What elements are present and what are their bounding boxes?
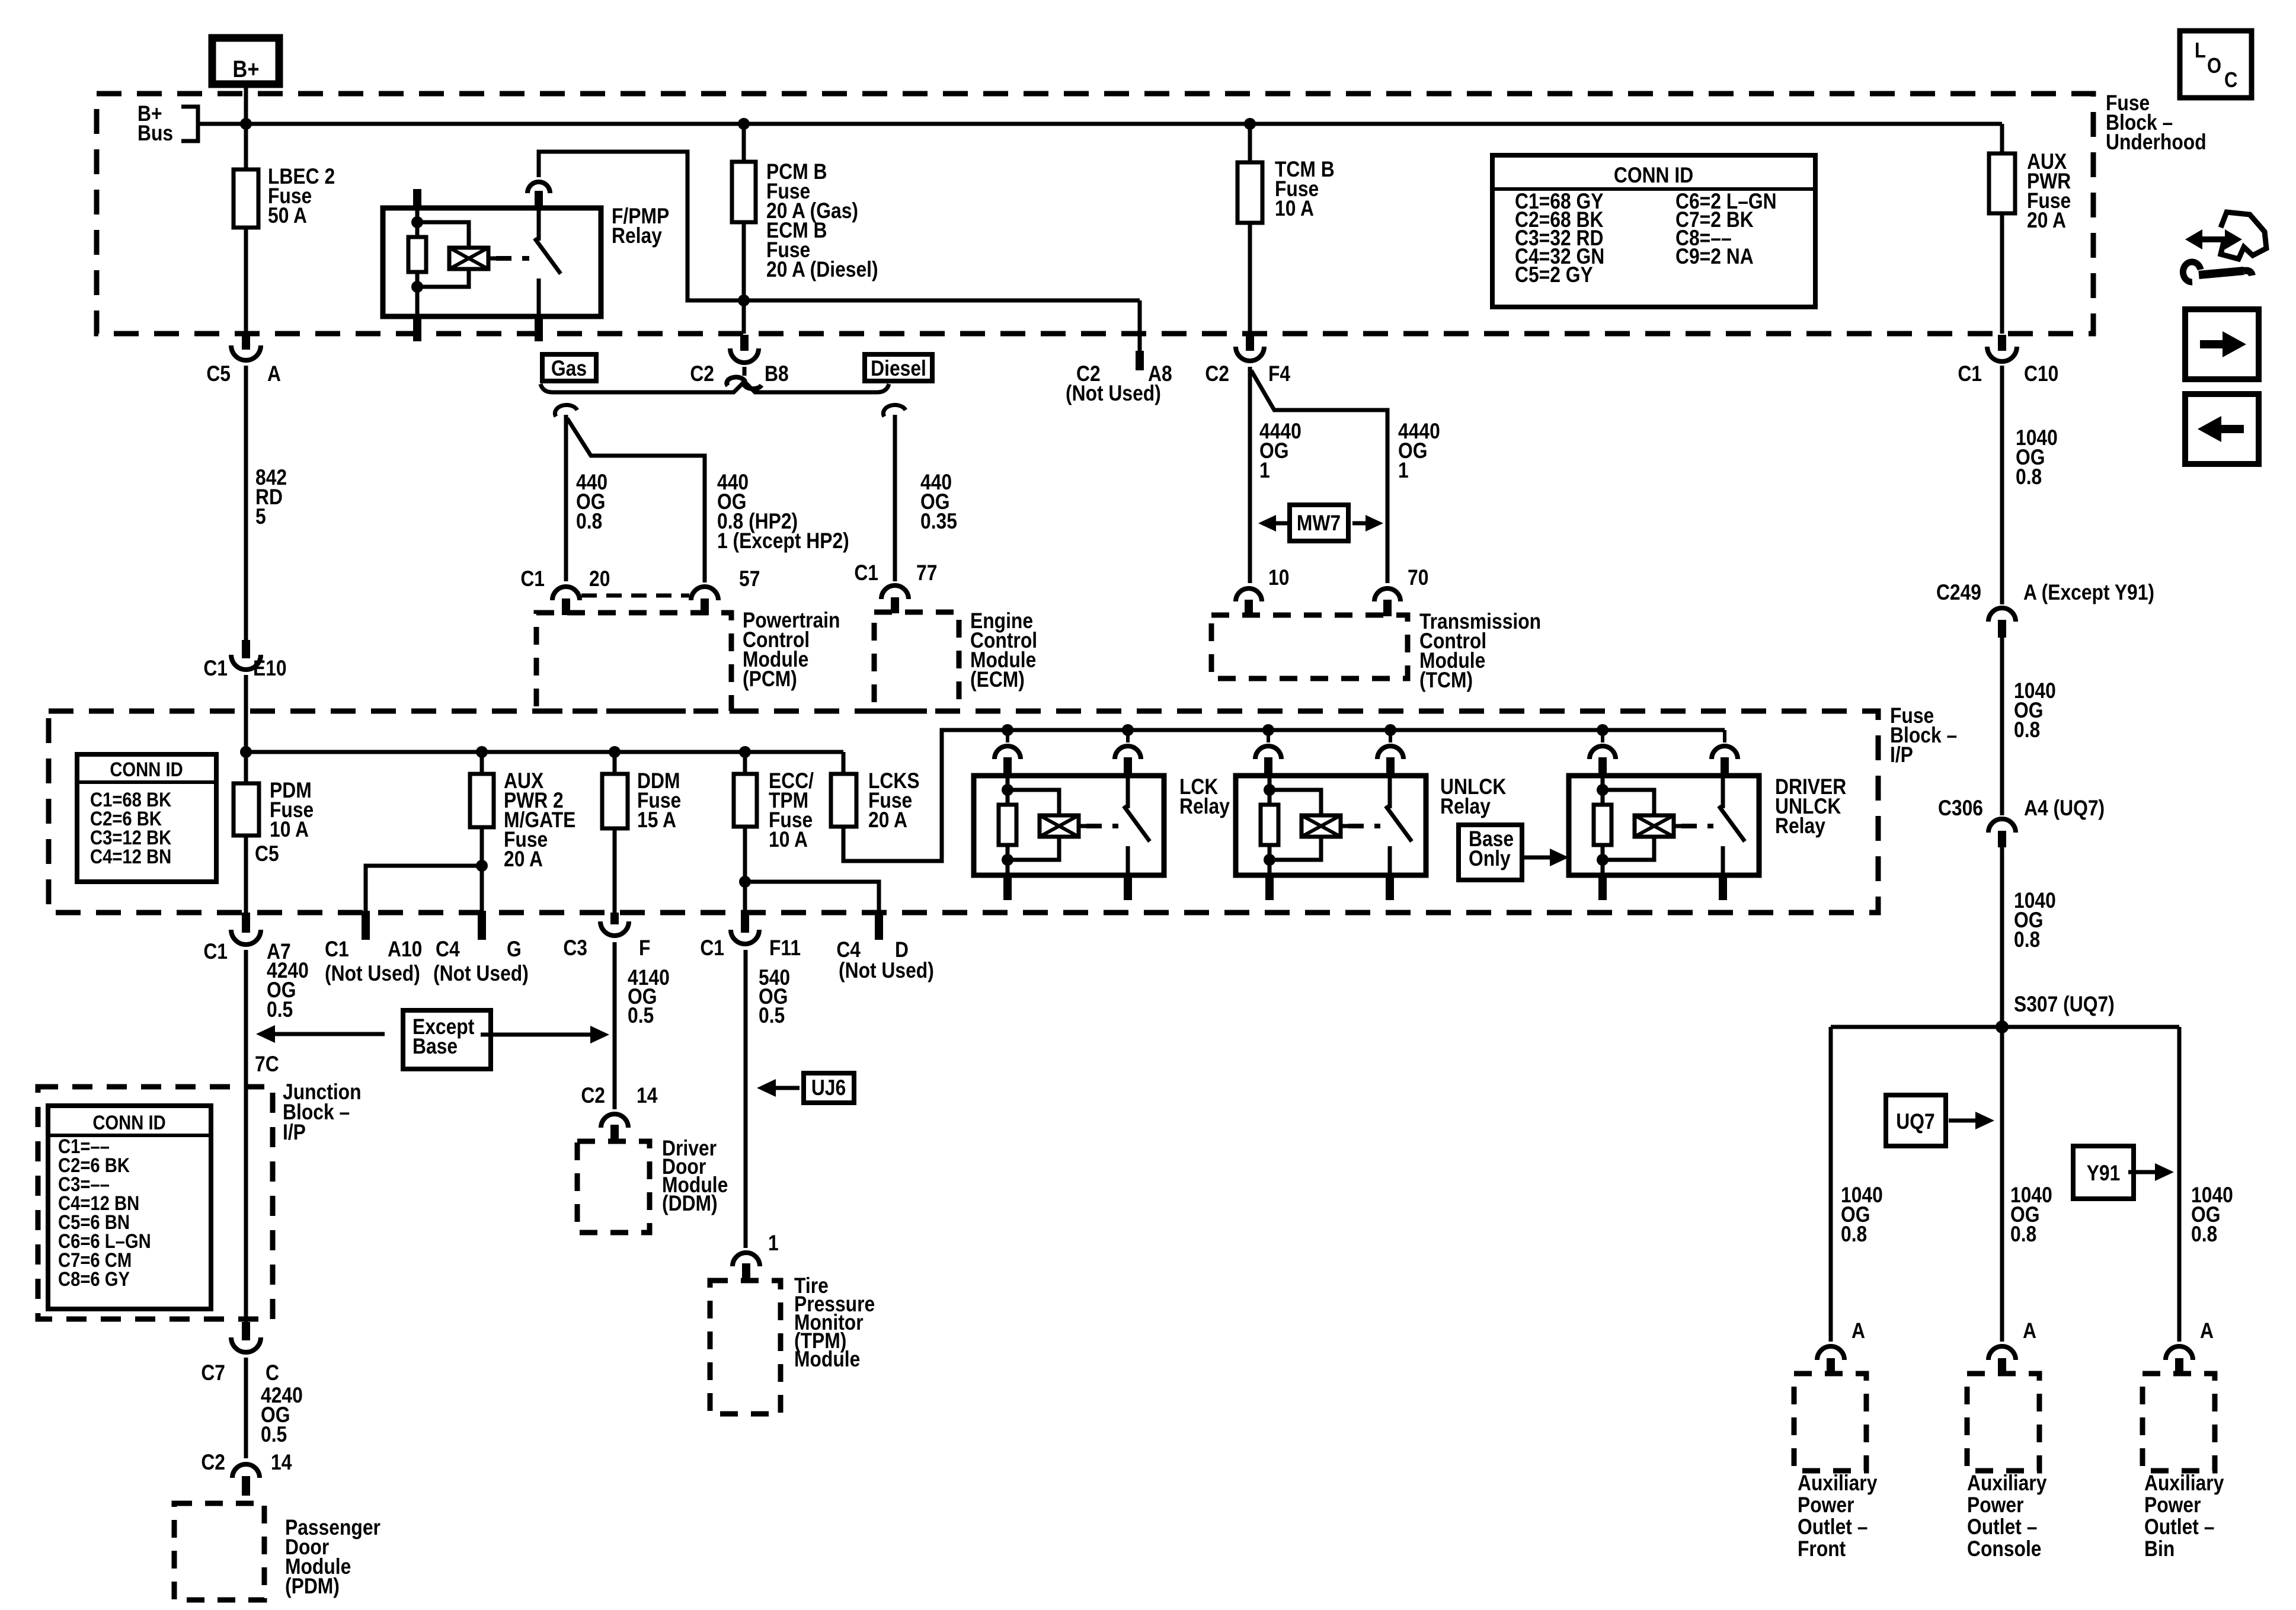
svg-text:C: C xyxy=(2224,69,2237,92)
label LCK relay xyxy=(1179,775,1230,819)
wire 842 RD 5 xyxy=(246,366,287,640)
module ECM box xyxy=(874,612,959,711)
svg-text:A10: A10 xyxy=(388,937,422,962)
fuse ECC/TPM 10A xyxy=(734,752,814,852)
svg-text:O: O xyxy=(2207,55,2221,78)
junction dot relaybus UNLCK switch xyxy=(1384,724,1396,736)
svg-text:Outlet –: Outlet – xyxy=(2144,1515,2214,1539)
svg-text:20 A: 20 A xyxy=(868,808,907,833)
svg-text:C10: C10 xyxy=(2024,362,2058,386)
label wire 540 OG 0.5 xyxy=(746,950,790,1248)
connector relay pin DUNLCK coil xyxy=(1590,730,1616,776)
label wire 4240 OG 0.5 pdm xyxy=(246,1358,303,1458)
svg-text:10 A: 10 A xyxy=(769,828,808,852)
connector outlet console pin A xyxy=(1988,1319,2036,1374)
node S307 xyxy=(1996,993,2115,1033)
svg-text:20 A: 20 A xyxy=(504,847,543,872)
icon arrow-left box xyxy=(2185,394,2259,464)
label DRIVER UNLCK relay xyxy=(1775,775,1846,838)
label wire 1040 OG 0.8 bin xyxy=(2191,1183,2233,1247)
svg-text:C4=12 BN: C4=12 BN xyxy=(90,845,171,868)
wire B+ bus xyxy=(198,122,2002,126)
wire outlet console xyxy=(2000,1027,2004,1342)
svg-text:Bin: Bin xyxy=(2144,1537,2175,1561)
connector relay pin LCK switch xyxy=(1115,730,1141,776)
connector hook diesel branch xyxy=(883,405,906,417)
svg-text:1: 1 xyxy=(1259,459,1270,483)
connector outlet bin pin A xyxy=(2166,1319,2214,1374)
connector PCM pin57 xyxy=(691,567,760,615)
wire A10 branch xyxy=(366,866,482,911)
svg-text:(ECM): (ECM) xyxy=(970,668,1025,692)
svg-text:(DDM): (DDM) xyxy=(662,1192,718,1216)
junction dot PCM/relay feed xyxy=(738,295,750,306)
connector C2/14 pdm xyxy=(201,1451,292,1496)
svg-text:A: A xyxy=(1851,1319,1865,1343)
svg-text:E10: E10 xyxy=(253,657,287,681)
svg-text:0.8: 0.8 xyxy=(2016,465,2042,489)
module PCM box xyxy=(536,613,731,711)
relay F/PMP xyxy=(383,208,601,341)
relay UNLCK xyxy=(1236,776,1426,900)
svg-text:C1: C1 xyxy=(203,657,228,681)
label wire 4240 OG 0.5 xyxy=(267,959,309,1022)
brace gas/diesel split xyxy=(541,382,889,392)
wire gas branch pin57 xyxy=(567,418,705,582)
wire B+ feed xyxy=(244,84,248,169)
wire DDM out xyxy=(613,828,617,913)
option box UJ6 xyxy=(757,1073,854,1103)
connector TCM pin10 xyxy=(1236,566,1289,616)
fuse LCKS 20A xyxy=(831,752,920,833)
svg-text:C5: C5 xyxy=(255,842,279,866)
label wire 440 OG 0.8 xyxy=(576,470,607,534)
connector C7/C xyxy=(201,1322,279,1385)
svg-text:Relay: Relay xyxy=(1179,795,1230,819)
connector C1/F11 xyxy=(700,913,801,961)
svg-text:UJ6: UJ6 xyxy=(811,1076,846,1100)
svg-text:C7: C7 xyxy=(201,1361,225,1385)
option box Except Base xyxy=(256,1010,609,1069)
svg-text:1: 1 xyxy=(1398,459,1409,483)
svg-text:C4: C4 xyxy=(436,937,460,962)
junction dot relaybus UNLCK coil xyxy=(1262,724,1274,736)
svg-text:0.8: 0.8 xyxy=(576,510,602,534)
svg-text:Relay: Relay xyxy=(612,224,662,248)
module TPM box xyxy=(710,1281,781,1414)
module PDM box xyxy=(174,1503,264,1600)
svg-text:F11: F11 xyxy=(769,936,801,961)
wire F/PMP relay feed xyxy=(539,152,1140,370)
svg-text:C1: C1 xyxy=(325,937,349,962)
svg-text:C5=2 GY: C5=2 GY xyxy=(1515,263,1593,287)
junction block IP dashed box xyxy=(38,1087,273,1319)
option box Y91 xyxy=(2073,1146,2174,1199)
svg-text:50 A: 50 A xyxy=(268,204,307,228)
svg-text:C2: C2 xyxy=(690,362,714,386)
svg-text:A: A xyxy=(2023,1319,2036,1343)
connector C1/C10 xyxy=(1958,335,2058,386)
connector PCM pin20 xyxy=(520,567,610,615)
svg-text:C1: C1 xyxy=(203,940,228,964)
svg-text:Front: Front xyxy=(1798,1537,1846,1561)
svg-text:Auxiliary: Auxiliary xyxy=(2144,1471,2224,1496)
label wire 440 OG 0.35 xyxy=(920,470,957,534)
svg-text:70: 70 xyxy=(1408,566,1428,590)
svg-text:10 A: 10 A xyxy=(270,818,309,842)
svg-text:Power: Power xyxy=(1967,1493,2023,1518)
label fuse block IP xyxy=(1890,704,1957,767)
connector ECM pin77 xyxy=(854,561,937,613)
module aux power outlet bin box xyxy=(2142,1374,2215,1471)
svg-text:C3: C3 xyxy=(563,936,587,961)
svg-text:C1: C1 xyxy=(700,936,724,961)
svg-text:Diesel: Diesel xyxy=(871,357,926,381)
module aux power outlet console box xyxy=(1967,1374,2039,1471)
stub F/PMP coil top xyxy=(413,189,421,208)
svg-text:F4: F4 xyxy=(1268,362,1290,386)
connector relay pin UNLCK switch xyxy=(1377,730,1403,776)
svg-text:7C: 7C xyxy=(255,1052,279,1077)
svg-text:14: 14 xyxy=(271,1451,292,1475)
junction dot bus/DDM xyxy=(609,746,621,758)
svg-text:20 A (Diesel): 20 A (Diesel) xyxy=(766,258,878,282)
module DDM box xyxy=(577,1141,650,1233)
svg-text:0.8: 0.8 xyxy=(2010,1222,2036,1247)
svg-text:Gas: Gas xyxy=(551,357,587,381)
fuse PCM B / ECM B xyxy=(732,124,878,334)
label DDM xyxy=(662,1137,728,1216)
icon arrow-right box xyxy=(2185,309,2259,379)
wire AUXPWR2 out xyxy=(480,827,484,911)
node B+ Bus bracket xyxy=(137,102,198,146)
svg-text:Relay: Relay xyxy=(1440,795,1491,819)
svg-text:MW7: MW7 xyxy=(1297,511,1341,536)
svg-text:C8=6 GY: C8=6 GY xyxy=(58,1267,130,1291)
svg-text:5: 5 xyxy=(255,505,266,529)
svg-text:B8: B8 xyxy=(765,362,789,386)
wire PDM out xyxy=(244,836,248,913)
svg-text:C1: C1 xyxy=(854,561,878,585)
connector C5/A xyxy=(206,335,281,386)
label wire 1040 OG 0.8 c xyxy=(2014,889,2056,952)
svg-text:(TCM): (TCM) xyxy=(1419,668,1473,693)
wire D branch xyxy=(745,882,879,911)
svg-text:Base: Base xyxy=(412,1035,458,1059)
svg-text:A4 (UQ7): A4 (UQ7) xyxy=(2024,796,2105,821)
connector relay pin DUNLCK switch xyxy=(1712,730,1738,776)
wire ECC out xyxy=(743,827,747,913)
svg-text:C306: C306 xyxy=(1938,796,1983,821)
tag box Base Only xyxy=(1459,825,1569,880)
svg-text:C1: C1 xyxy=(520,567,545,591)
connector outlet front pin A xyxy=(1817,1319,1865,1374)
svg-text:CONN ID: CONN ID xyxy=(92,1111,165,1134)
svg-text:(Not Used): (Not Used) xyxy=(433,962,529,986)
svg-text:Module: Module xyxy=(794,1347,860,1372)
label junction block IP xyxy=(283,1080,362,1145)
svg-text:0.5: 0.5 xyxy=(267,998,293,1022)
wire C249 to C306 xyxy=(2000,638,2004,815)
svg-text:C5: C5 xyxy=(206,362,231,386)
connector C1/A7 xyxy=(203,913,290,964)
fuse TCM B 10A xyxy=(1237,124,1335,334)
icon service wrench xyxy=(2183,212,2266,282)
connector C2/F4 xyxy=(1205,335,1290,386)
fuse AUX PWR 20A xyxy=(1989,124,2071,334)
label outlet bin xyxy=(2144,1471,2224,1561)
fuse LBEC 2 50A xyxy=(234,165,335,228)
label F/PMP relay xyxy=(612,204,669,248)
wire IP fuse bus xyxy=(246,750,843,754)
svg-text:F: F xyxy=(639,936,650,961)
junction dot AUXPWR2 branch xyxy=(476,860,488,872)
option box UQ7 xyxy=(1886,1095,1994,1146)
svg-text:C2: C2 xyxy=(1205,362,1229,386)
svg-text:(PCM): (PCM) xyxy=(743,667,797,692)
svg-text:Relay: Relay xyxy=(1775,814,1825,838)
wire C10 down xyxy=(2000,366,2004,604)
label outlet front xyxy=(1798,1471,1877,1561)
label wire 1040 OG 0.8 a xyxy=(2016,426,2058,489)
wire S307 bus xyxy=(1831,1025,2179,1029)
connector C2/B8 xyxy=(690,335,788,389)
conn id table IP xyxy=(77,754,216,882)
svg-text:A (Except Y91): A (Except Y91) xyxy=(2023,581,2154,605)
label TCM xyxy=(1419,610,1541,693)
junction dot relaybus LCK coil xyxy=(1002,724,1013,736)
svg-text:0.5: 0.5 xyxy=(628,1004,654,1028)
svg-text:10 A: 10 A xyxy=(1275,197,1314,221)
label wire 1040 OG 0.8 console xyxy=(2010,1183,2052,1247)
svg-text:C249: C249 xyxy=(1936,581,1981,605)
fuse block underhood dashed box xyxy=(97,94,2093,334)
svg-text:C2: C2 xyxy=(581,1084,605,1108)
label C2 A8 not used xyxy=(1066,362,1172,406)
fuse DDM 15A xyxy=(602,752,681,833)
connector TPM pin1 xyxy=(733,1231,779,1282)
svg-text:I/P: I/P xyxy=(283,1121,306,1145)
svg-text:A: A xyxy=(2200,1319,2214,1343)
label PDM xyxy=(285,1516,380,1599)
relay LCK xyxy=(974,776,1164,900)
stub C1/A10 not used xyxy=(325,911,422,986)
connector C1/E10 xyxy=(203,640,286,681)
wire TCM pin10 xyxy=(1248,367,1252,583)
wire outlet bin xyxy=(2177,1027,2182,1342)
svg-text:10: 10 xyxy=(1268,566,1289,590)
label wire 440 OG 0.8 HP2 xyxy=(717,470,849,553)
svg-text:I/P: I/P xyxy=(1890,743,1913,767)
stub C4/D not used xyxy=(836,911,933,983)
svg-text:0.8: 0.8 xyxy=(2014,718,2040,742)
svg-text:Underhood: Underhood xyxy=(2106,130,2207,155)
svg-text:CONN ID: CONN ID xyxy=(110,758,183,781)
junction dot bus/TCM xyxy=(1244,118,1256,130)
svg-text:Bus: Bus xyxy=(137,121,173,146)
wire E10 to IP bus xyxy=(244,675,248,783)
stub C4/G not used xyxy=(433,911,529,986)
junction dot bus/PCM xyxy=(738,118,750,130)
svg-text:Outlet –: Outlet – xyxy=(1967,1515,2037,1539)
tag box Gas xyxy=(542,354,596,381)
svg-text:0.8: 0.8 xyxy=(2014,928,2040,952)
fuse PDM 10A xyxy=(234,779,314,866)
svg-text:C: C xyxy=(266,1361,279,1385)
connector C2/14 ddm xyxy=(581,1084,657,1142)
label TPM xyxy=(794,1274,875,1372)
svg-text:UQ7: UQ7 xyxy=(1896,1110,1934,1134)
svg-text:0.8: 0.8 xyxy=(1841,1222,1867,1247)
svg-text:77: 77 xyxy=(916,561,937,585)
svg-text:0.8: 0.8 xyxy=(2191,1222,2217,1247)
svg-text:C1: C1 xyxy=(1958,362,1982,386)
label PCM xyxy=(743,609,840,692)
relay DRIVER UNLCK xyxy=(1569,776,1759,900)
svg-text:CONN ID: CONN ID xyxy=(1614,164,1693,188)
svg-text:1 (Except HP2): 1 (Except HP2) xyxy=(717,529,849,553)
junction dot bus/AUXPWR2 xyxy=(476,746,488,758)
svg-text:Power: Power xyxy=(1798,1493,1854,1518)
dashed link PCM pins xyxy=(581,594,689,598)
svg-text:A: A xyxy=(267,362,281,386)
svg-text:20: 20 xyxy=(589,567,610,591)
module aux power outlet front box xyxy=(1794,1374,1866,1471)
fuse AUX PWR 2 M/GATE xyxy=(470,752,575,872)
conn id table underhood xyxy=(1492,155,1815,307)
power symbol B+ xyxy=(212,38,279,84)
wire TCM pin70 xyxy=(1251,370,1387,583)
svg-text:0.35: 0.35 xyxy=(920,510,957,534)
svg-text:(Not Used): (Not Used) xyxy=(839,959,934,983)
wire LCKS to relay bus xyxy=(843,730,1725,861)
svg-text:G: G xyxy=(507,937,522,962)
svg-text:0.5: 0.5 xyxy=(759,1004,785,1028)
tag box Diesel xyxy=(865,354,932,381)
connector TCM pin70 xyxy=(1374,566,1428,616)
label UNLCK relay xyxy=(1440,775,1506,819)
svg-text:(Not Used): (Not Used) xyxy=(1066,382,1161,406)
connector C3/F xyxy=(563,913,650,961)
svg-text:1: 1 xyxy=(768,1231,779,1256)
svg-text:L: L xyxy=(2195,39,2206,63)
connector arc F/PMP switch top xyxy=(527,182,550,208)
svg-text:C9=2 NA: C9=2 NA xyxy=(1675,245,1754,269)
svg-text:B+: B+ xyxy=(233,56,260,82)
junction dot relaybus LCK switch xyxy=(1122,724,1134,736)
svg-text:(Not Used): (Not Used) xyxy=(325,962,420,986)
svg-text:0.5: 0.5 xyxy=(261,1423,287,1447)
svg-text:(PDM): (PDM) xyxy=(285,1574,340,1599)
label wire 1040 OG 0.8 b xyxy=(2014,679,2056,742)
icon LOC box xyxy=(2180,31,2252,98)
connector relay pin LCK coil xyxy=(994,730,1021,776)
label wire 4440 OG 1 right xyxy=(1398,420,1440,483)
svg-text:Auxiliary: Auxiliary xyxy=(1798,1471,1877,1496)
connector hook gas branch xyxy=(555,405,577,417)
svg-text:Power: Power xyxy=(2144,1493,2201,1518)
module TCM box xyxy=(1211,615,1408,678)
wire A7 to junction block xyxy=(246,950,279,1322)
junction dot relaybus DUNLCK coil xyxy=(1597,724,1609,736)
wire C306 to S307 xyxy=(2000,847,2004,1027)
junction dot bus/PDM xyxy=(240,746,252,758)
junction dot bus/ECC xyxy=(739,746,751,758)
svg-text:20 A: 20 A xyxy=(2027,209,2066,233)
svg-text:Outlet –: Outlet – xyxy=(1798,1515,1868,1539)
svg-text:Auxiliary: Auxiliary xyxy=(1967,1471,2046,1496)
svg-text:S307 (UQ7): S307 (UQ7) xyxy=(2014,993,2115,1017)
svg-text:Y91: Y91 xyxy=(2087,1161,2121,1186)
junction dot ECC branch xyxy=(739,876,751,888)
label wire 4140 OG 0.5 xyxy=(615,942,670,1109)
connector C249 xyxy=(1936,581,2154,638)
label ECM xyxy=(970,609,1037,692)
label wire 1040 OG 0.8 front xyxy=(1841,1183,1883,1247)
svg-text:Console: Console xyxy=(1967,1537,2042,1561)
junction dot bus/LBEC xyxy=(240,118,252,130)
wire gas branch pin20 xyxy=(564,415,568,581)
svg-text:15 A: 15 A xyxy=(637,808,676,833)
option box MW7 xyxy=(1258,505,1383,541)
svg-text:57: 57 xyxy=(739,567,760,591)
wire outlet front xyxy=(1829,1027,1833,1342)
svg-text:C2: C2 xyxy=(201,1451,225,1475)
label wire 4440 OG 1 left xyxy=(1259,420,1302,483)
svg-text:14: 14 xyxy=(637,1084,657,1108)
svg-text:Only: Only xyxy=(1469,847,1511,871)
wire LBEC to C5 xyxy=(244,228,248,334)
label outlet console xyxy=(1967,1471,2046,1561)
connector relay pin UNLCK coil xyxy=(1255,730,1281,776)
connector C306 xyxy=(1938,796,2105,847)
conn id table junction xyxy=(48,1106,211,1309)
label fuse block underhood xyxy=(2106,91,2207,155)
fuse block I/P dashed box xyxy=(49,711,1878,913)
wire diesel branch pin77 xyxy=(893,415,897,581)
